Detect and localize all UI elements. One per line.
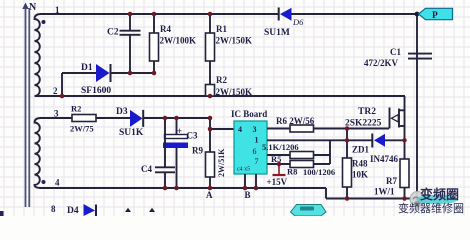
small component tip 1 bbox=[125, 208, 131, 212]
svg-text:2W/51K: 2W/51K bbox=[217, 148, 226, 177]
D1 branch wires bbox=[62, 73, 154, 96]
svg-text:D3: D3 bbox=[116, 107, 128, 117]
bottom-left corner mark bbox=[0, 211, 4, 216]
node dot gate wire bbox=[345, 126, 350, 131]
bottom cyan connector badge bbox=[291, 205, 327, 217]
diode D6 on top rail bbox=[278, 8, 280, 21]
wire rail pin2 bbox=[40, 95, 405, 97]
resistor R48 bbox=[343, 158, 352, 187]
svg-text:2W/100K: 2W/100K bbox=[160, 36, 197, 46]
svg-text:R1: R1 bbox=[216, 24, 227, 34]
wire D1 anode vertical bbox=[61, 73, 63, 96]
svg-text:SF1600: SF1600 bbox=[81, 86, 111, 96]
node dot top rail R1 bbox=[208, 12, 213, 17]
svg-text:TR2: TR2 bbox=[358, 107, 376, 117]
W2 polarity dot bbox=[42, 180, 46, 184]
resistor R5 bbox=[290, 152, 314, 159]
transformer winding W2 (pins 3-4) bbox=[35, 118, 42, 188]
svg-text:C1: C1 bbox=[390, 47, 401, 57]
svg-text:R2: R2 bbox=[216, 75, 227, 85]
watermark circle badge bbox=[410, 192, 425, 207]
node dot right rail bottom bbox=[415, 196, 420, 201]
wire pin7 (R8 line) bbox=[267, 163, 290, 165]
resistor R8 bbox=[290, 161, 314, 168]
capacitor C4 bbox=[164, 118, 166, 167]
svg-text:3: 3 bbox=[54, 109, 59, 119]
resistor R1 bbox=[209, 14, 211, 33]
transistor TR2 MOSFET bbox=[390, 96, 405, 159]
svg-text:C3: C3 bbox=[187, 131, 198, 141]
node dot C4 top bbox=[163, 116, 168, 121]
resistor R2 (2W/75) bbox=[72, 115, 96, 122]
svg-text:C4: C4 bbox=[141, 164, 152, 174]
svg-text:变频器维修圈: 变频器维修圈 bbox=[398, 201, 464, 215]
node dot R7 bottom bbox=[402, 196, 407, 201]
transformer core lines bbox=[26, 8, 30, 207]
wire bottom rail left bbox=[40, 187, 326, 189]
svg-text:变频圈: 变频圈 bbox=[420, 187, 459, 202]
node dot R4 bottom bbox=[152, 71, 157, 76]
node dot pin4 wire bbox=[208, 127, 213, 132]
wire pin3 to gate (R6 line) bbox=[267, 128, 290, 130]
svg-text:R9: R9 bbox=[192, 146, 203, 156]
IC Board box U1 bbox=[234, 121, 267, 174]
svg-text:N: N bbox=[29, 2, 37, 13]
node dot top rail R4 bbox=[152, 12, 157, 17]
zener diode ZD1 bbox=[371, 134, 373, 148]
svg-text:C2: C2 bbox=[107, 28, 119, 38]
svg-text:P: P bbox=[432, 11, 438, 21]
capacitor C3 (electrolytic) bbox=[176, 118, 178, 135]
svg-text:5.1K/1206: 5.1K/1206 bbox=[262, 142, 299, 152]
svg-text:2W/150K: 2W/150K bbox=[216, 36, 253, 46]
svg-text:8: 8 bbox=[51, 204, 56, 214]
svg-text:D6: D6 bbox=[292, 17, 304, 27]
wire D1 cathode to R4 node bbox=[111, 72, 155, 74]
watermark cyan swash bbox=[417, 195, 458, 205]
diode D3 bbox=[130, 110, 143, 127]
node dot R48 bottom bbox=[345, 196, 350, 201]
svg-text:100/1206: 100/1206 bbox=[303, 167, 335, 177]
node dot C3 top bbox=[174, 116, 179, 121]
transformer core arrow (AN) bbox=[22, 3, 28, 10]
capacitor C2 bbox=[120, 14, 141, 73]
W1 polarity dot bbox=[42, 20, 46, 24]
svg-text:2SK2225: 2SK2225 bbox=[345, 119, 382, 129]
resistor R9 column bbox=[209, 118, 211, 152]
resistor R7 bbox=[400, 159, 409, 188]
wire pin1 / ZD1 line bbox=[267, 139, 372, 141]
svg-text:4: 4 bbox=[238, 125, 242, 134]
capacitor C1 bbox=[408, 54, 432, 59]
diode D1 bbox=[96, 64, 110, 82]
svg-text:A: A bbox=[206, 190, 213, 200]
node dot C3 bottom bbox=[174, 186, 179, 191]
svg-text:10K: 10K bbox=[352, 170, 368, 180]
svg-text:+: + bbox=[177, 126, 182, 136]
IC bottom pin stubs bbox=[244, 174, 246, 188]
svg-text:2W/75: 2W/75 bbox=[70, 124, 94, 134]
svg-text:3: 3 bbox=[253, 125, 257, 134]
svg-text:ZD1: ZD1 bbox=[352, 145, 370, 155]
wire gate node vertical to R48 bbox=[346, 129, 348, 159]
node dot rail3 R9 bbox=[208, 116, 213, 121]
resistor R6 bbox=[290, 125, 314, 132]
svg-text:2: 2 bbox=[53, 86, 58, 96]
diode D4 fragment bbox=[84, 204, 96, 216]
svg-text:+15V: +15V bbox=[267, 177, 288, 187]
wire top rail right of D6 bbox=[292, 13, 418, 15]
node dot C2 bottom bbox=[128, 71, 133, 76]
+15V power symbol bbox=[278, 164, 280, 175]
transformer winding W1 (pins 1-2) bbox=[35, 14, 42, 96]
svg-text:R6 2W/56: R6 2W/56 bbox=[276, 116, 315, 126]
node dot ZD1 right / source bbox=[402, 138, 407, 143]
wire D1 anode horizontal bbox=[62, 72, 96, 74]
svg-text:B: B bbox=[245, 190, 251, 200]
connector P flag bbox=[415, 12, 420, 17]
svg-text:1: 1 bbox=[255, 136, 259, 145]
svg-text:2W/150K: 2W/150K bbox=[216, 87, 253, 97]
svg-text:R4: R4 bbox=[160, 24, 171, 34]
resistor R4 bbox=[153, 14, 155, 33]
node dot +15V tap bbox=[277, 162, 282, 167]
svg-text:R8: R8 bbox=[287, 167, 297, 177]
wire R5/R8 tie vertical bbox=[329, 140, 331, 164]
wire step between bottom rails bbox=[325, 188, 327, 199]
node dot D1 anode bbox=[60, 94, 65, 99]
wire IC pin4 bbox=[210, 128, 234, 130]
svg-text:472/2KV: 472/2KV bbox=[364, 58, 399, 68]
wires: main rails bbox=[40, 14, 417, 199]
wire bottom rail right lower bbox=[326, 198, 417, 200]
wire right rail (P) bbox=[416, 14, 418, 199]
svg-text:SU1M: SU1M bbox=[264, 28, 290, 38]
node dot IC pin stub 1 bbox=[243, 186, 248, 191]
node dot R2 bottom bbox=[208, 94, 213, 99]
svg-text:R48: R48 bbox=[352, 159, 368, 169]
small component tip 2 bbox=[149, 208, 155, 212]
svg-text:7: 7 bbox=[255, 157, 259, 166]
wire pin6 (R5 line) bbox=[267, 154, 290, 156]
svg-text:IN4746: IN4746 bbox=[370, 154, 399, 164]
node dot ZD1 left bbox=[345, 138, 350, 143]
svg-text:IC Board: IC Board bbox=[231, 109, 267, 119]
resistor R2 (150K) bbox=[206, 85, 215, 97]
svg-text:D4: D4 bbox=[67, 206, 79, 216]
svg-text:SU1K: SU1K bbox=[119, 128, 144, 138]
node dot A bbox=[208, 186, 213, 191]
wire top rail left of D6 bbox=[40, 13, 278, 15]
svg-text:R2: R2 bbox=[71, 104, 81, 114]
node dot IC pin stub 2 bbox=[254, 186, 259, 191]
svg-text:1W/1: 1W/1 bbox=[374, 187, 395, 197]
wire rail pin3 segments bbox=[40, 117, 72, 119]
node dot top rail C2 bbox=[128, 12, 133, 17]
svg-text:6: 6 bbox=[253, 147, 257, 156]
svg-text:R7: R7 bbox=[386, 176, 397, 186]
svg-text:D1: D1 bbox=[81, 63, 93, 73]
node dot C4 bottom bbox=[163, 186, 168, 191]
svg-text:c4 x5: c4 x5 bbox=[237, 167, 250, 173]
svg-text:4: 4 bbox=[55, 178, 60, 188]
